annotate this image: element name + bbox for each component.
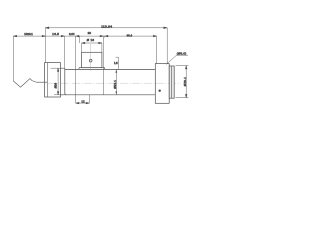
long ext line through tube (chain + 12 dim) xyxy=(75,36,77,103)
left cylinder body xyxy=(45,63,61,97)
svg-text:16.5: 16.5 xyxy=(52,32,59,36)
boss base plate xyxy=(79,68,105,70)
seg 16.5 right arrow xyxy=(61,35,64,37)
chamfer note with leader xyxy=(166,55,177,64)
svg-text:Ø22.1: Ø22.1 xyxy=(113,80,117,89)
boss hole circle xyxy=(89,59,92,62)
svg-text:Ø29.1: Ø29.1 xyxy=(183,77,187,86)
left cylinder cap line xyxy=(46,63,48,97)
svg-text:12: 12 xyxy=(81,99,85,103)
svg-text:(Ø8.0): (Ø8.0) xyxy=(177,52,187,56)
svg-text:3.04: 3.04 xyxy=(69,32,75,36)
flange disk (protruding) xyxy=(169,66,174,98)
svg-text:20: 20 xyxy=(88,31,92,35)
svg-text:66.4: 66.4 xyxy=(127,34,133,38)
neck section xyxy=(61,68,67,95)
disk shading line xyxy=(171,66,173,98)
flange hole circle xyxy=(159,90,161,92)
tube section divider + chain ext xyxy=(102,36,104,95)
bottom dim 12 xyxy=(76,95,90,104)
top boss block xyxy=(82,52,102,67)
right flange block xyxy=(155,64,169,104)
svg-text:113.04: 113.04 xyxy=(101,24,112,28)
svg-text:Ø24: Ø24 xyxy=(54,82,58,88)
boss dim Ø18 xyxy=(82,42,102,52)
neck diameter dim (vertical, inside cylinder) xyxy=(51,68,63,95)
seg 66.4 arrows xyxy=(105,35,157,37)
right vertical dim xyxy=(176,66,189,98)
svg-text:10±0.1: 10±0.1 xyxy=(24,32,33,36)
centerline main axis xyxy=(48,82,181,84)
svg-text:Ø 18: Ø 18 xyxy=(87,38,95,42)
break zigzag line (left broken continuation) xyxy=(13,79,47,88)
tube label (rotated) xyxy=(115,69,117,94)
roughness mark on tube xyxy=(116,57,119,69)
svg-text:1.5: 1.5 xyxy=(114,61,118,65)
main tube outline xyxy=(65,69,156,94)
main dim chain row xyxy=(13,35,156,81)
inside arrows seg 10±0.1 xyxy=(13,35,45,37)
boss vertical centerline xyxy=(90,44,92,71)
seg 20 arrows xyxy=(76,35,104,37)
dim row1 113.04 xyxy=(45,27,167,64)
